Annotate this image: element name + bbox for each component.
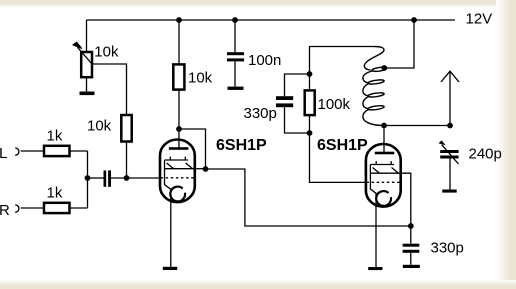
- wire pot bottom lead: [86, 77, 88, 91]
- ground 100n: [228, 87, 244, 90]
- wire coil bottom to tube2 plate: [383, 126, 385, 154]
- wire bottom node to 330p: [410, 226, 412, 244]
- ground tube2 cathode: [368, 267, 382, 270]
- svg-text:100n: 100n: [248, 52, 281, 69]
- svg-text:R: R: [0, 202, 10, 219]
- wire plate node over to g2 drop: [179, 129, 206, 169]
- page border right: [496, 0, 516, 289]
- potentiometer P1 10k: [81, 52, 92, 77]
- antenna: [441, 71, 459, 125]
- ground tube1 cathode: [163, 267, 177, 270]
- node bias/grid junction: [124, 175, 130, 181]
- wire tube2 cathode to ground: [375, 194, 377, 267]
- node top of 100k: [307, 71, 313, 77]
- svg-text:12V: 12V: [466, 11, 493, 28]
- svg-text:1k: 1k: [47, 128, 63, 145]
- inductor L1 coil: [363, 47, 387, 126]
- svg-text:1k: 1k: [47, 185, 63, 202]
- wire rail to 100n: [234, 20, 236, 52]
- wire output to bottom rail: [206, 169, 411, 226]
- svg-text:6SH1P: 6SH1P: [317, 137, 368, 154]
- resistor 1k L: [44, 146, 70, 156]
- wire tube2 g2 to bottom rail: [401, 173, 411, 226]
- wire grid node to tube2 grid: [310, 133, 367, 182]
- wire rail to plate resistor: [178, 20, 180, 64]
- node rail/coil feed: [411, 17, 417, 23]
- ground pot: [80, 92, 95, 96]
- wire tube1 cathode to ground: [170, 189, 172, 267]
- svg-text:10k: 10k: [94, 44, 119, 61]
- node tube1 output: [203, 166, 209, 172]
- wire 330p branch: [285, 74, 310, 133]
- capacitor 330p grid: [276, 96, 293, 100]
- wire sum to coupling cap: [88, 177, 104, 179]
- wire tube1 g2 to node: [196, 168, 205, 170]
- node rail/plate resistor: [176, 17, 182, 23]
- wire 100n to ground: [234, 61, 236, 86]
- resistor 1k R: [44, 203, 70, 213]
- svg-text:240p: 240p: [469, 146, 502, 163]
- svg-text:L: L: [0, 145, 7, 162]
- svg-text:6SH1P: 6SH1P: [216, 137, 267, 154]
- ground varicap: [442, 190, 456, 193]
- wire coil tap to rail: [384, 20, 414, 68]
- tube V2 6SH1P: [366, 144, 402, 207]
- wire 100k leads: [309, 74, 311, 133]
- svg-text:100k: 100k: [318, 96, 351, 113]
- wire coupling cap to tube1 grid: [111, 177, 160, 179]
- wire bias resistor to grid node: [126, 142, 128, 179]
- wire 12V rail: [87, 19, 456, 21]
- capacitor 330p bottom: [403, 244, 420, 247]
- svg-text:330p: 330p: [244, 105, 277, 122]
- node input sum: [85, 175, 91, 181]
- svg-text:10k: 10k: [188, 69, 213, 86]
- wire 330p to ground: [410, 253, 412, 265]
- tube V1 6SH1P: [160, 140, 196, 203]
- node plate1: [176, 126, 182, 132]
- capacitor 100n: [227, 52, 244, 55]
- wire L resistor to sum node: [70, 150, 88, 152]
- page border bottom: [0, 280, 516, 289]
- wire plate resistor to tube1 plate: [178, 90, 180, 150]
- resistor R2 10k bias: [121, 115, 131, 142]
- ground 330p: [403, 265, 420, 268]
- node antenna: [447, 123, 453, 129]
- svg-text:10k: 10k: [87, 118, 112, 135]
- node bottom of 100k: [307, 130, 313, 136]
- wire pot top lead: [86, 20, 88, 52]
- wire top node to coil top: [310, 47, 375, 75]
- wire varicap to ground: [449, 159, 451, 190]
- wire R resistor to sum node: [70, 207, 88, 209]
- resistor 100k: [305, 90, 315, 115]
- capacitor coupling: [104, 170, 107, 186]
- node bottom rail junction: [408, 223, 414, 229]
- wire input sum vertical: [87, 151, 89, 208]
- wire L input: [21, 150, 44, 152]
- wire R input: [21, 207, 44, 209]
- node coil tap: [381, 65, 387, 71]
- node rail/100n: [232, 17, 238, 23]
- page border top: [0, 0, 516, 8]
- wire coil bottom to antenna node: [384, 125, 450, 127]
- resistor R1 10k plate: [173, 64, 184, 89]
- svg-text:330p: 330p: [431, 240, 464, 257]
- capacitor 240p variable: [440, 150, 458, 153]
- wire pot wiper to bias resistor: [92, 64, 127, 115]
- node coil bottom: [381, 123, 387, 129]
